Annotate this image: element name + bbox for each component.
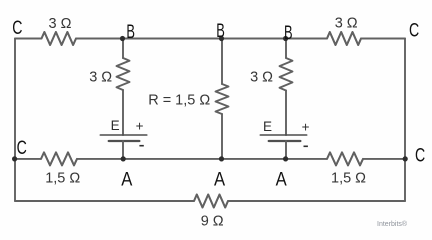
svg-text:E: E [263, 119, 272, 134]
svg-text:C: C [12, 18, 22, 39]
wire branch B3 down [285, 39, 287, 59]
svg-text:C: C [17, 138, 27, 159]
svg-text:3 Ω: 3 Ω [250, 69, 273, 85]
battery E2 negative plate [269, 140, 301, 142]
wire branch B1 down [122, 39, 124, 59]
svg-text:+: + [302, 119, 310, 134]
svg-text:3 Ω: 3 Ω [49, 16, 72, 32]
wire left side C-to-C [14, 39, 16, 202]
svg-text:1,5 Ω: 1,5 Ω [331, 171, 366, 187]
svg-text:A: A [276, 170, 287, 191]
resistor R 3ohm top-left (between C and B) [42, 32, 77, 45]
svg-text:B: B [126, 22, 135, 43]
resistor 3ohm vertical left [117, 58, 130, 90]
node C bottom-left junction [12, 156, 17, 161]
battery E1 negative plate [109, 140, 140, 142]
resistor 1,5ohm bottom-left [41, 152, 77, 165]
wire battery E1 to node A1 [122, 141, 124, 159]
node B2 junction [219, 36, 224, 41]
wire resistor to battery E1 [122, 90, 124, 135]
resistor 9ohm bottom [194, 195, 228, 208]
resistor 3ohm vertical right [280, 58, 293, 91]
svg-text:C: C [415, 146, 425, 167]
svg-text:A: A [121, 170, 132, 191]
node A3 junction [283, 156, 288, 161]
svg-text:9 Ω: 9 Ω [201, 214, 224, 230]
resistor 1,5ohm bottom-right [327, 152, 363, 165]
wire middle row C-A-A-A-C [15, 152, 405, 165]
svg-text:B: B [284, 23, 293, 44]
battery E1 positive plate [100, 134, 147, 136]
svg-text:3 Ω: 3 Ω [89, 70, 112, 86]
node A2 junction [219, 156, 224, 161]
svg-text:C: C [409, 21, 419, 42]
node C bottom-right junction [403, 156, 408, 161]
wire branch B2 down [221, 39, 223, 85]
svg-text:3 Ω: 3 Ω [335, 15, 358, 31]
resistor R=1,5ohm vertical middle [216, 84, 229, 114]
wire bottom with resistor 9ohm [15, 195, 405, 208]
resistor R 3ohm top-right (between B and C) [327, 32, 361, 45]
svg-text:E: E [111, 118, 120, 133]
battery E1 minus sign [139, 145, 143, 147]
wire resistor to battery E2 [285, 91, 287, 136]
svg-text:Interbits®: Interbits® [377, 220, 408, 228]
node B3 junction [283, 36, 288, 41]
svg-text:B: B [216, 21, 225, 42]
svg-text:A: A [214, 170, 225, 191]
battery E2 positive plate [260, 134, 306, 136]
svg-text:R = 1,5 Ω: R = 1,5 Ω [148, 93, 210, 109]
wire resistor R to node A2 [221, 114, 223, 159]
wire top C-to-C with resistors [15, 32, 405, 45]
node B1 junction [120, 36, 125, 41]
svg-text:+: + [136, 118, 144, 133]
wire right side C-to-C [404, 39, 406, 202]
battery E2 minus sign [304, 145, 308, 147]
wire battery E2 to node A3 [285, 141, 287, 159]
node A1 junction [121, 156, 126, 161]
svg-text:1,5 Ω: 1,5 Ω [45, 171, 80, 187]
